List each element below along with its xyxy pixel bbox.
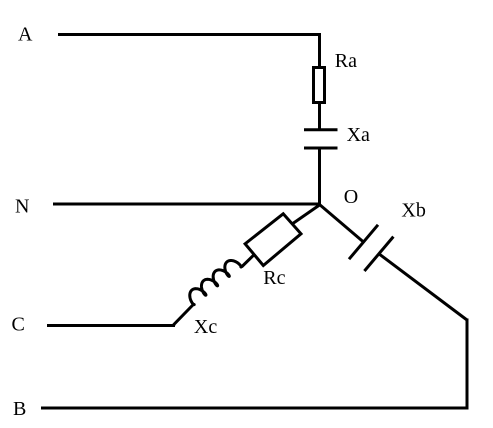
inductor Xc coil <box>186 257 242 305</box>
svg-text:Xa: Xa <box>347 124 370 146</box>
capacitor Xb left plate <box>349 225 378 259</box>
wire Rc to Xc <box>242 255 255 267</box>
wire Xb to corner <box>379 254 467 320</box>
svg-text:Xb: Xb <box>401 199 425 221</box>
svg-text:Ra: Ra <box>335 50 357 72</box>
capacitor Xb right plate <box>364 237 393 271</box>
wire corner down to phase B <box>466 319 469 410</box>
resistor Rc (tilted) <box>245 214 301 266</box>
wire phase C horizontal <box>47 324 175 327</box>
svg-text:N: N <box>15 195 29 217</box>
svg-text:A: A <box>18 24 33 46</box>
wire node O to Xb <box>320 205 364 243</box>
svg-text:O: O <box>344 186 358 208</box>
wire Ra to Xa <box>318 102 321 130</box>
wire Xa to node O <box>318 148 321 206</box>
svg-text:Rc: Rc <box>263 267 285 289</box>
svg-text:B: B <box>13 398 26 420</box>
wire phase N to node O <box>53 203 320 206</box>
capacitor Xa bottom plate <box>304 147 338 150</box>
wire phase B horizontal <box>41 407 469 410</box>
svg-text:C: C <box>12 314 25 336</box>
wire Xc to phase C <box>174 304 194 326</box>
svg-text:Xc: Xc <box>194 316 217 338</box>
wire phase A horizontal with corner down to Ra <box>58 35 320 67</box>
wire node O to Rc <box>292 205 319 224</box>
capacitor Xa top plate <box>304 128 338 131</box>
resistor Ra <box>314 68 325 103</box>
